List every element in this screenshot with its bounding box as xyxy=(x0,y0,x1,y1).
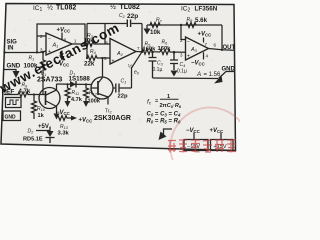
resistor R6 160k xyxy=(160,50,186,55)
svg-text:+VCC: +VCC xyxy=(198,32,212,38)
svg-text:4.7k: 4.7k xyxy=(19,89,31,95)
svg-text:½: ½ xyxy=(110,3,116,11)
scan noise speckles xyxy=(14,9,228,140)
svg-text:GND: GND xyxy=(5,115,17,121)
svg-text:=: = xyxy=(155,99,158,105)
svg-text:+VCC: +VCC xyxy=(57,28,71,34)
svg-text:OUT: OUT xyxy=(223,45,236,51)
connector hook xyxy=(164,129,173,135)
resistor R3 10k xyxy=(84,42,110,47)
svg-text:1k: 1k xyxy=(38,113,45,119)
ground under C4 xyxy=(171,71,178,77)
wire C2 top xyxy=(87,23,142,25)
svg-text:RD5.1E: RD5.1E xyxy=(23,137,43,143)
capacitor C4 0.1u xyxy=(173,51,176,54)
resistor R9 4.7k xyxy=(4,92,38,97)
svg-text:R0 = R5 = R6: R0 = R5 = R6 xyxy=(147,119,182,125)
resistor R12 100k xyxy=(85,83,87,85)
svg-text:100k: 100k xyxy=(88,99,101,105)
svg-text:IC2: IC2 xyxy=(181,6,191,14)
feedback wire A1 xyxy=(37,24,85,53)
-Vcc pin 4 A3 xyxy=(203,52,205,59)
resistor R8 5.6k xyxy=(186,23,196,28)
collector wire to gate xyxy=(57,83,92,86)
emitter arrow xyxy=(54,114,60,120)
svg-text:C0 = C3 = C4: C0 = C3 = C4 xyxy=(147,112,182,118)
border frame xyxy=(1,4,236,151)
svg-text:TL082: TL082 xyxy=(120,4,140,11)
resistor R1 100k xyxy=(41,53,46,95)
svg-text:LF356N: LF356N xyxy=(195,6,218,13)
svg-text:5.6k: 5.6k xyxy=(195,17,208,24)
svg-text:0.1µ: 0.1µ xyxy=(177,69,187,75)
svg-text:+: + xyxy=(112,59,115,65)
svg-text:TL082: TL082 xyxy=(56,5,76,12)
svg-text:160k: 160k xyxy=(143,47,157,53)
wire A2 out xyxy=(136,51,142,53)
ground arrow xyxy=(13,71,20,78)
op-amp A1 xyxy=(46,33,72,55)
wire A1 out xyxy=(72,43,87,45)
svg-text:= 1.56: = 1.56 xyxy=(204,72,222,78)
feedback riser A2 xyxy=(141,24,143,52)
svg-text:A: A xyxy=(196,71,201,78)
ground rail xyxy=(153,77,219,80)
svg-text:2SK30AGR: 2SK30AGR xyxy=(94,115,131,122)
resistor R7 10k xyxy=(150,23,160,28)
JFET Q2 2SK30AGR xyxy=(91,77,113,99)
capacitor C3 0.1u xyxy=(151,51,154,54)
resistor R10 1k xyxy=(32,95,37,120)
svg-text:½: ½ xyxy=(47,4,53,12)
svg-text:0.1µ: 0.1µ xyxy=(153,67,163,73)
svg-text:160k: 160k xyxy=(158,46,172,52)
resistor R4 22k xyxy=(87,56,110,61)
feedback riser to output xyxy=(221,25,223,50)
capacitor C2 22p xyxy=(127,20,130,28)
svg-text:10k: 10k xyxy=(150,29,161,36)
op-amp A2 xyxy=(110,39,136,65)
wire riser to pin6 xyxy=(104,24,106,45)
svg-text:+VCC: +VCC xyxy=(79,118,93,124)
svg-text:22p: 22p xyxy=(118,94,128,100)
svg-text:−VCC: −VCC xyxy=(56,110,70,116)
svg-text:22p: 22p xyxy=(127,13,138,20)
feedback riser A3 pin2 xyxy=(181,25,186,40)
svg-text:22k: 22k xyxy=(84,61,95,68)
svg-text:A1: A1 xyxy=(52,43,59,49)
node line A2 input xyxy=(86,24,88,59)
svg-text:−: − xyxy=(187,40,190,46)
wire SIG to A1 pin3 xyxy=(5,51,47,53)
GND terminal (lower-left) xyxy=(3,111,21,121)
svg-text:A3: A3 xyxy=(190,47,198,53)
zener D2 RD5.1E xyxy=(36,127,50,132)
watermark stamp characters xyxy=(168,140,236,153)
watermark stamp circle xyxy=(171,108,250,187)
svg-text:IN: IN xyxy=(8,46,14,52)
svg-text:IC1: IC1 xyxy=(33,5,43,13)
svg-text:1S1588: 1S1588 xyxy=(69,76,91,83)
svg-text:2SA733: 2SA733 xyxy=(37,77,62,84)
svg-text:−VCC: −VCC xyxy=(191,61,205,67)
wire GND stub xyxy=(4,70,16,72)
capacitor C1 22p xyxy=(113,84,132,93)
node R1 tap xyxy=(42,51,44,53)
resistor R13 3.3k xyxy=(57,116,72,121)
resistor R5 160k xyxy=(142,49,160,54)
top feedback wire A3 xyxy=(147,24,222,26)
square wave source icon xyxy=(6,98,22,108)
svg-text:1: 1 xyxy=(167,94,170,100)
svg-text:A2: A2 xyxy=(116,51,124,57)
svg-text:+: + xyxy=(187,54,190,60)
transistor Q1 2SA733 xyxy=(39,88,60,109)
resistor R11 4.7k xyxy=(66,83,68,85)
svg-text:2πC0·R0: 2πC0·R0 xyxy=(160,103,182,109)
svg-text:3.3k: 3.3k xyxy=(58,131,70,137)
op-amp A3 xyxy=(186,37,209,60)
-Vcc pin 4 xyxy=(61,51,63,57)
diode D1 1S1588 xyxy=(70,81,76,88)
svg-text:4.7k: 4.7k xyxy=(71,97,83,103)
svg-text:−: − xyxy=(48,36,51,42)
svg-text:GND: GND xyxy=(7,63,21,70)
svg-text:+5V: +5V xyxy=(38,124,49,130)
svg-text:−VCC: −VCC xyxy=(186,128,200,134)
wire diagonal tap xyxy=(132,52,143,88)
ground stub R7 xyxy=(146,25,148,29)
